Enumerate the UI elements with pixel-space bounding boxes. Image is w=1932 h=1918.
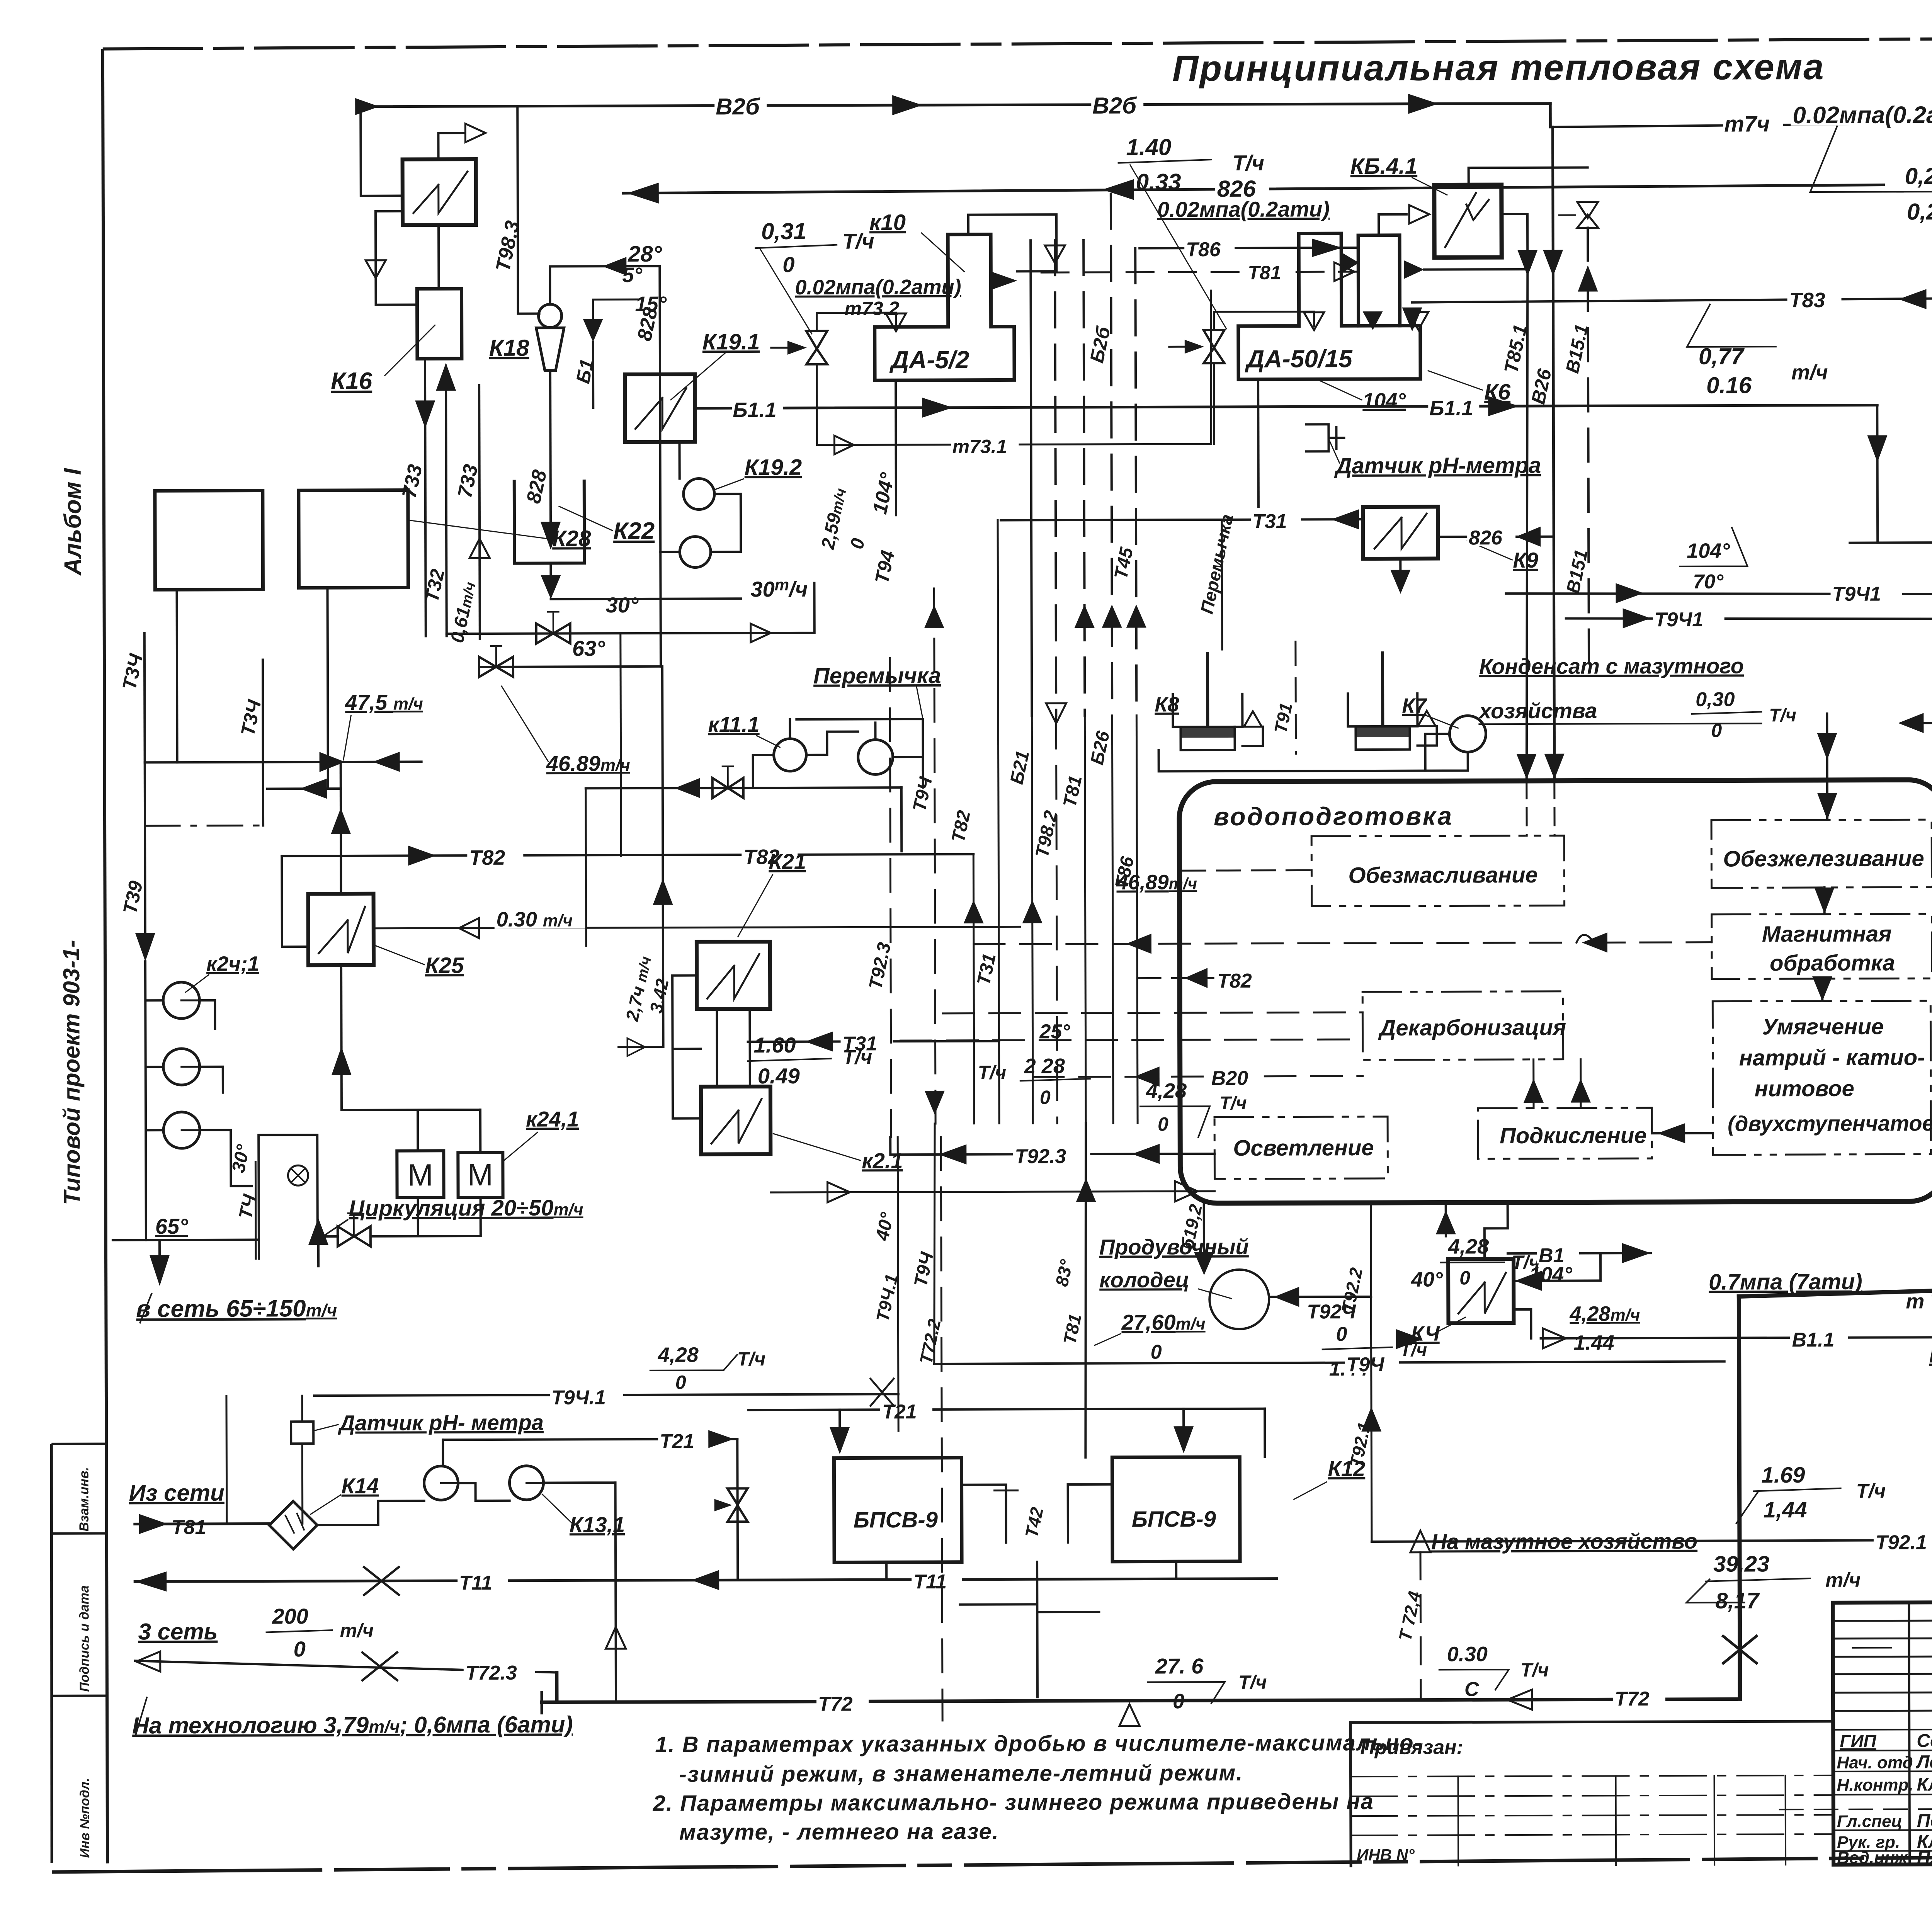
leader K24.1 bbox=[503, 1132, 537, 1161]
arrow up T94 bbox=[924, 605, 944, 628]
svg-text:к24,1: к24,1 bbox=[526, 1107, 579, 1131]
bundle v T92.3 bbox=[890, 658, 891, 1137]
svg-text:К19.1: К19.1 bbox=[702, 329, 760, 354]
svg-text:Т/ч: Т/ч bbox=[978, 1061, 1007, 1083]
arrow left 47.5 b bbox=[373, 752, 400, 772]
open arrow up on 733 bbox=[469, 539, 490, 558]
svg-text:водоподготовка: водоподготовка bbox=[1214, 801, 1453, 831]
svg-text:Из сети: Из сети bbox=[129, 1480, 224, 1506]
svg-text:Обезмасливание: Обезмасливание bbox=[1348, 862, 1537, 888]
wires podkisl up to dekarb bbox=[1532, 1059, 1534, 1108]
tick end bbox=[540, 1692, 543, 1713]
wire 733 pair below tank: left down bbox=[425, 359, 426, 636]
svg-text:К19.2: К19.2 bbox=[745, 455, 802, 480]
wire short merge second bbox=[267, 787, 341, 790]
leader K13.1 bbox=[543, 1494, 573, 1524]
svg-text:27. 6: 27. 6 bbox=[1155, 1654, 1204, 1678]
arrow up cirk bbox=[308, 1218, 328, 1245]
open arrow on upper valve line bbox=[751, 624, 771, 642]
arrow into B1.1 from left low bbox=[1396, 1329, 1423, 1349]
arrow up B21 bbox=[1022, 900, 1043, 923]
wire T86 bbox=[1139, 248, 1358, 248]
svg-text:(двухступенчатое): (двухступенчатое) bbox=[1728, 1111, 1932, 1136]
svg-text:63°: 63° bbox=[572, 636, 605, 660]
svg-text:В2б: В2б bbox=[1092, 93, 1137, 119]
bundle v T31 bbox=[998, 520, 999, 1124]
svg-text:Т/ч: Т/ч bbox=[1219, 1093, 1247, 1114]
label B1.1 bbox=[732, 396, 783, 419]
title block outer bbox=[1833, 1600, 1932, 1865]
leader 0.31 to valve bbox=[760, 249, 812, 334]
arrow left second bbox=[300, 779, 327, 799]
leader KB.4.1 bbox=[1412, 177, 1447, 195]
wire up into tank bbox=[446, 366, 447, 636]
circle-x vent bbox=[288, 1165, 308, 1185]
svg-text:К7: К7 bbox=[1402, 694, 1427, 718]
arrow T31 into K9 bbox=[1331, 509, 1359, 529]
wire B1.1 from K4 right bbox=[1541, 1337, 1932, 1338]
svg-text:Т82: Т82 bbox=[1217, 970, 1252, 992]
svg-text:На мазутное хозяйство: На мазутное хозяйство bbox=[1431, 1529, 1697, 1554]
left strip column line bbox=[51, 1444, 53, 1863]
svg-text:Декарбонизация: Декарбонизация bbox=[1378, 1015, 1566, 1041]
leader K25 bbox=[375, 945, 424, 964]
tank BPSV-9 right bbox=[1112, 1457, 1240, 1562]
arrow down at 30 line bbox=[541, 575, 561, 599]
arrow T86 bbox=[1312, 238, 1342, 257]
svg-text:Нач. отд: Нач. отд bbox=[1837, 1753, 1913, 1772]
wire tank2 down bbox=[327, 588, 328, 789]
svg-text:натрий - катио-: натрий - катио- bbox=[1739, 1045, 1925, 1070]
box Dekarbonizaciya bbox=[1362, 991, 1563, 1060]
sig table verticals bbox=[1909, 1602, 1932, 1864]
wire T83 bbox=[1412, 298, 1932, 302]
pump K13.1 a bbox=[424, 1466, 458, 1500]
svg-text:Вед.инж: Вед.инж bbox=[1837, 1848, 1908, 1867]
arrow magnit to umyagch bbox=[1821, 979, 1823, 1001]
vertical valve bowtie bbox=[728, 1488, 748, 1522]
central bundle vertical 1 bbox=[1031, 240, 1032, 716]
label T72 bottom a bbox=[816, 1690, 869, 1712]
wire feed K21 vertical bbox=[662, 667, 663, 1047]
wire 826 from K9 bbox=[1438, 536, 1554, 538]
wire B26 vertical bbox=[1553, 127, 1554, 781]
leader 1.40 to valve50 bbox=[1130, 165, 1226, 329]
pump circle c2 bbox=[163, 1049, 200, 1085]
svg-text:Т/ч: Т/ч bbox=[1238, 1671, 1267, 1693]
svg-text:4,28т/ч: 4,28т/ч bbox=[1569, 1302, 1640, 1325]
wire T34 left col bbox=[145, 633, 145, 933]
heat exchanger K16 square bbox=[403, 159, 476, 225]
wire K9 down arrow bbox=[1399, 559, 1401, 570]
loop rect left of valve bbox=[259, 1135, 338, 1259]
label T82 bbox=[467, 844, 523, 866]
svg-text:0,30: 0,30 bbox=[1696, 689, 1735, 711]
wire T31 line bbox=[1001, 519, 1363, 520]
arrow on B2b mid bbox=[892, 95, 922, 115]
wire valve line corner down bbox=[900, 787, 903, 851]
leader K10 bbox=[922, 233, 964, 272]
svg-text:Умягчение: Умягчение bbox=[1762, 1014, 1884, 1040]
arrow up B26 bbox=[1102, 605, 1122, 628]
label T74 bbox=[1723, 110, 1783, 133]
open arrow T81 bbox=[1334, 262, 1354, 281]
svg-text:К22: К22 bbox=[613, 518, 655, 544]
svg-text:4,28: 4,28 bbox=[658, 1343, 699, 1367]
label T92.1 bbox=[1874, 1529, 1932, 1551]
svg-text:0: 0 bbox=[675, 1372, 686, 1393]
valve bowtie upper bbox=[536, 623, 570, 643]
arrow down T85.1 bbox=[1517, 250, 1537, 276]
arrow umyagch to podkisl bbox=[1652, 1132, 1713, 1134]
leader 39.23 bbox=[1686, 1579, 1744, 1602]
heat exchanger K4 bbox=[1448, 1259, 1514, 1323]
wire T941 line upper bbox=[1506, 591, 1932, 597]
svg-text:т73.2: т73.2 bbox=[845, 298, 900, 319]
label T72 bottom b bbox=[1613, 1685, 1665, 1707]
svg-text:Т92.3: Т92.3 bbox=[1015, 1145, 1066, 1168]
label B1.1 right bbox=[1428, 394, 1479, 417]
wire B19.2 into well bbox=[1203, 1203, 1205, 1272]
wires pumps piping bbox=[443, 1439, 616, 1702]
arrow stub into valve bbox=[787, 341, 807, 355]
svg-text:К8: К8 bbox=[1155, 693, 1179, 716]
valve X on T11 bbox=[364, 1567, 399, 1595]
cross valve on T72v bbox=[1723, 1636, 1757, 1663]
svg-text:40°: 40° bbox=[1411, 1268, 1443, 1291]
wire 65 line bbox=[113, 1239, 259, 1241]
svg-text:Т83: Т83 bbox=[1789, 289, 1825, 312]
wire tower2 to KB41 bbox=[1379, 214, 1406, 235]
svg-text:В1.1: В1.1 bbox=[1792, 1329, 1835, 1351]
svg-text:Портной: Портной bbox=[1917, 1811, 1932, 1831]
wire K10 tower top loop bbox=[968, 214, 1056, 272]
svg-text:К6: К6 bbox=[1484, 379, 1511, 405]
svg-text:Лепендин: Лепендин bbox=[1915, 1752, 1932, 1773]
wire T81.1 line lower bbox=[1566, 616, 1932, 622]
arrow up on T92.2 vert bbox=[1361, 1407, 1381, 1432]
svg-text:Б1.1: Б1.1 bbox=[1429, 396, 1473, 420]
funnel arrows into DA-50 top bbox=[1304, 312, 1324, 330]
label T83 bbox=[1787, 286, 1841, 309]
svg-text:1. В параметрах указанных дро: 1. В параметрах указанных дробью в числи… bbox=[655, 1730, 1422, 1757]
leader sensor2 bbox=[315, 1425, 338, 1430]
box Osvetlenie bbox=[1214, 1117, 1388, 1179]
open arrow T72.3 bbox=[136, 1651, 160, 1671]
wire T81 line bbox=[135, 1522, 269, 1525]
arrow left 826 bbox=[627, 183, 659, 204]
label T92.3 bbox=[1013, 1143, 1090, 1165]
wire B1.1 long line bbox=[695, 405, 1877, 408]
wire peremychka jumper bbox=[796, 719, 923, 770]
svg-text:Б1.1: Б1.1 bbox=[733, 398, 776, 422]
arrow up feed K21 bbox=[653, 879, 673, 905]
dashed feed into obezmaslivanie left bbox=[1182, 869, 1311, 872]
arrow up T81 bbox=[1075, 605, 1095, 628]
arrow left valve line bbox=[675, 778, 700, 798]
label T81 bbox=[1246, 260, 1293, 281]
bundle v T94 bbox=[934, 588, 935, 1124]
wire osvetlenie feed bbox=[771, 1191, 1215, 1192]
svg-text:Т72: Т72 bbox=[818, 1693, 853, 1716]
svg-text:К28: К28 bbox=[552, 526, 591, 551]
central bundle vertical 3 bbox=[1083, 240, 1085, 716]
valve bowtie DA-50 feed bbox=[1204, 330, 1225, 363]
svg-text:БПСВ-9: БПСВ-9 bbox=[1132, 1507, 1216, 1532]
wire down from K22 to 30 bbox=[549, 563, 552, 575]
svg-text:т/ч: т/ч bbox=[340, 1620, 374, 1641]
svg-text:т/ч: т/ч bbox=[1791, 361, 1828, 384]
wire T81 dashed bbox=[1041, 272, 1357, 272]
svg-text:Т72.3: Т72.3 bbox=[466, 1662, 517, 1684]
svg-text:К16: К16 bbox=[331, 368, 372, 394]
t82 dashed into box left bbox=[1137, 977, 1213, 979]
wire T34 second col bbox=[263, 660, 263, 825]
svg-text:0.7мпа (7ати): 0.7мпа (7ати) bbox=[1709, 1269, 1862, 1295]
wires K11.1 piping bbox=[753, 719, 923, 788]
label T941 lower bbox=[1653, 606, 1725, 628]
open arrow left T72 mid bbox=[1507, 1690, 1532, 1710]
svg-text:0: 0 bbox=[1158, 1113, 1168, 1135]
wire T73.1 bbox=[816, 291, 1211, 445]
dashed line t82 with break bbox=[974, 942, 1712, 944]
wire T72.3 line bbox=[135, 1660, 557, 1674]
svg-text:0.16: 0.16 bbox=[1706, 372, 1752, 398]
deaerator DA-5/2 tank bbox=[874, 234, 1014, 380]
wire K16 top bend arrow bbox=[438, 133, 463, 159]
heat exchanger K9 bbox=[1363, 507, 1438, 559]
svg-text:Т9Ч1: Т9Ч1 bbox=[1832, 583, 1881, 605]
svg-text:0: 0 bbox=[1151, 1341, 1162, 1363]
svg-text:Т9Ч1: Т9Ч1 bbox=[1655, 609, 1704, 631]
arrow down small 15 bbox=[583, 319, 603, 342]
wires K19.2 piping bbox=[660, 442, 741, 552]
leader K22 bbox=[559, 506, 612, 531]
svg-text:В2б: В2б bbox=[716, 94, 760, 119]
arrow obezzh to magnit bbox=[1823, 888, 1826, 914]
tank K22 open top bbox=[514, 481, 585, 563]
svg-text:826: 826 bbox=[1469, 527, 1503, 549]
svg-text:Т11: Т11 bbox=[459, 1572, 492, 1594]
leader K9 bbox=[1467, 541, 1512, 560]
svg-text:Т82: Т82 bbox=[469, 846, 505, 869]
wire left loop to K16 bbox=[361, 107, 403, 196]
tank K16 lower rect bbox=[417, 289, 461, 359]
open arrow top v2 bbox=[1045, 245, 1065, 263]
wire T92.2 vertical bbox=[1371, 1254, 1372, 1542]
wire T92.4 into well bbox=[1269, 1296, 1371, 1298]
box Podkislenie bbox=[1478, 1108, 1652, 1159]
label T31 bbox=[1251, 508, 1301, 529]
wire upper valve line bbox=[446, 583, 814, 634]
svg-text:200: 200 bbox=[272, 1604, 308, 1628]
arrow left at 28 bbox=[602, 257, 626, 275]
svg-text:0,31: 0,31 bbox=[761, 218, 806, 244]
bundle v T98.2 bbox=[1056, 716, 1057, 1123]
svg-text:39.23: 39.23 bbox=[1713, 1551, 1769, 1576]
wire mazut vertical dashed bbox=[1420, 1552, 1421, 1700]
heat exchanger K21 lower bbox=[701, 1087, 770, 1154]
label T73.1 bbox=[951, 433, 1019, 454]
svg-text:Продувочный: Продувочный bbox=[1099, 1234, 1249, 1259]
sensor pH box bbox=[1306, 424, 1344, 451]
wire drain bpsv vertical bbox=[1036, 1612, 1039, 1697]
svg-text:Датчик рН-метра: Датчик рН-метра bbox=[1334, 453, 1541, 478]
dashed feeds inside box to obezmaslivanie top bbox=[1526, 781, 1527, 836]
svg-text:ИНВ N°: ИНВ N° bbox=[1357, 1846, 1415, 1864]
svg-text:0.02мпа(0.2ати): 0.02мпа(0.2ати) bbox=[1157, 197, 1330, 221]
sampler K7 cup right bbox=[1348, 694, 1417, 750]
box Obezzhelezivanie bbox=[1711, 820, 1932, 888]
svg-text:Т/ч: Т/ч bbox=[737, 1348, 766, 1370]
svg-text:КБ.4.1: КБ.4.1 bbox=[1350, 154, 1418, 179]
wire sensor2 drop bbox=[226, 1396, 303, 1524]
svg-text:30°: 30° bbox=[606, 593, 639, 617]
wire T85.1 vertical bbox=[1525, 269, 1529, 781]
arrows down into BPSV bbox=[830, 1427, 850, 1454]
wire BPSV bottoms to T11 bbox=[886, 1561, 1176, 1612]
leader peremychka bbox=[917, 687, 923, 719]
svg-text:Инв №подл.: Инв №подл. bbox=[78, 1778, 93, 1858]
pump K13.1 b bbox=[509, 1466, 543, 1500]
svg-text:70°: 70° bbox=[1693, 571, 1724, 593]
bundle v B26 low bbox=[1112, 716, 1113, 1123]
arrow on B2b bbox=[355, 98, 379, 115]
wire T83 into tank arrow bbox=[1402, 308, 1422, 332]
svg-text:К25: К25 bbox=[425, 953, 464, 978]
pump K11.1 circle b bbox=[858, 740, 893, 774]
leader 46.89 left bbox=[502, 686, 548, 762]
leader 104 bbox=[1320, 381, 1362, 400]
svg-text:Взам.инв.: Взам.инв. bbox=[77, 1467, 91, 1532]
svg-text:1.40: 1.40 bbox=[1126, 134, 1171, 160]
svg-text:колодец: колодец bbox=[1099, 1267, 1189, 1292]
filter K14 diamond bbox=[269, 1501, 317, 1549]
wire T98.3 vertical bbox=[517, 106, 539, 314]
frame left border bbox=[103, 49, 107, 1864]
open arrow up mazut bbox=[1410, 1531, 1430, 1552]
open arrow right small bbox=[465, 124, 485, 142]
wire T94 line low bbox=[934, 1362, 1725, 1364]
wire K14 to pumps bbox=[317, 1483, 510, 1525]
svg-text:0.33: 0.33 bbox=[1136, 169, 1181, 195]
leader fraction 0.23/0.20 bbox=[1810, 126, 1903, 192]
svg-text:0.49: 0.49 bbox=[758, 1064, 800, 1088]
leader K12 bbox=[1294, 1482, 1327, 1499]
arrow on dashed t82 bbox=[1582, 932, 1607, 952]
wire T94.1 vertical long bbox=[898, 1137, 898, 1431]
tick T42 bbox=[995, 1490, 1018, 1491]
svg-text:М: М bbox=[467, 1158, 493, 1192]
open arrow down T98.2 bbox=[1046, 703, 1066, 723]
svg-text:В20: В20 bbox=[1211, 1067, 1248, 1090]
wire pump down bbox=[550, 371, 551, 522]
svg-text:к2.1: к2.1 bbox=[862, 1148, 903, 1173]
tank BPSV-9 left bbox=[834, 1458, 962, 1563]
svg-text:т73.1: т73.1 bbox=[952, 435, 1007, 457]
valve bowtie DA-5 feed bbox=[806, 331, 827, 364]
wire peremychka2 vertical bbox=[1221, 520, 1223, 650]
svg-text:Т31: Т31 bbox=[1252, 510, 1287, 533]
wire corner down to T74 bbox=[1549, 104, 1552, 127]
dekarb dashed feeds left bbox=[943, 1012, 1362, 1013]
arrow up on merge vert bbox=[331, 808, 351, 834]
svg-text:104°: 104° bbox=[1362, 389, 1406, 412]
wire 0.30 line bbox=[374, 927, 1020, 928]
wire K16 left step down bbox=[376, 211, 417, 304]
svg-text:Циркуляция 20÷50т/ч: Циркуляция 20÷50т/ч bbox=[349, 1195, 583, 1221]
svg-text:С: С bbox=[1464, 1678, 1480, 1700]
svg-text:к10: к10 bbox=[869, 210, 906, 235]
wire T81 down to T94 bbox=[1085, 1123, 1087, 1457]
svg-text:Т72: Т72 bbox=[1615, 1688, 1650, 1710]
label T94.1 bbox=[550, 1384, 623, 1405]
arrow into tower2 right bbox=[1404, 260, 1424, 279]
leader 47.5 bbox=[343, 716, 351, 760]
svg-text:Т81: Т81 bbox=[1248, 262, 1281, 284]
svg-text:Альбом I: Альбом I bbox=[60, 468, 87, 576]
svg-text:К12: К12 bbox=[1328, 1456, 1365, 1481]
arrow T83 left-pointing bbox=[1898, 289, 1926, 309]
label T21 bbox=[658, 1428, 708, 1449]
svg-text:Т/ч: Т/ч bbox=[1233, 151, 1265, 175]
leader sensor bbox=[1329, 440, 1339, 463]
box Obezmaslivanie bbox=[1311, 836, 1564, 906]
svg-text:1,44: 1,44 bbox=[1764, 1497, 1807, 1522]
wire 30deg collect bbox=[551, 599, 741, 599]
wire 47.5 merge line bbox=[145, 762, 422, 762]
pump K18 funnel bbox=[536, 328, 564, 370]
svg-text:0: 0 bbox=[1040, 1087, 1051, 1108]
svg-text:Типовой проект 903-1-: Типовой проект 903-1- bbox=[58, 940, 85, 1205]
svg-text:Т9Ч: Т9Ч bbox=[1347, 1353, 1385, 1376]
wire B2b main steam line bbox=[361, 104, 1550, 107]
svg-text:0.30 т/ч: 0.30 т/ч bbox=[497, 908, 573, 931]
sampler K8 cup left bbox=[1173, 694, 1242, 750]
bundle v B21 bbox=[1032, 716, 1033, 1123]
svg-text:М: М bbox=[407, 1158, 433, 1192]
svg-text:0: 0 bbox=[1336, 1323, 1347, 1345]
wire T4 vertical bbox=[255, 1162, 257, 1259]
wire B20 line bbox=[1033, 1076, 1363, 1077]
svg-text:ДА-50/15: ДА-50/15 bbox=[1245, 345, 1353, 373]
open arrow into KB41 left bbox=[1409, 205, 1429, 224]
wire 826 second line bbox=[623, 185, 1884, 194]
label T94 low bbox=[1345, 1351, 1399, 1373]
arrow into tower right bbox=[991, 271, 1017, 290]
wire K25 down bbox=[340, 965, 343, 1110]
svg-text:Т81: Т81 bbox=[172, 1516, 206, 1539]
svg-text:Т/ч: Т/ч bbox=[1856, 1480, 1886, 1503]
pump K19.2 lower circle bbox=[680, 536, 711, 567]
arrow left 826k9 bbox=[1516, 527, 1541, 547]
wire B1.1 corner down right bbox=[1876, 405, 1879, 543]
fraction 4.28 into box bottom bbox=[1445, 1202, 1447, 1236]
leader K19.2 bbox=[716, 479, 744, 489]
dash in a cell bbox=[1853, 1647, 1891, 1648]
svg-text:1.69: 1.69 bbox=[1761, 1462, 1805, 1488]
svg-text:4,28: 4,28 bbox=[1448, 1235, 1489, 1258]
arrow up T82 bbox=[964, 900, 984, 923]
arrow T81 in bbox=[139, 1514, 168, 1534]
valve bowtie B15.1 top bbox=[1577, 202, 1598, 228]
heat exchanger KB.4.1 square bbox=[1434, 185, 1502, 257]
svg-text:обработка: обработка bbox=[1770, 950, 1895, 976]
wire T91 vertical dashed bbox=[1294, 642, 1297, 754]
svg-text:мазуте, - летнего на газе.: мазуте, - летнего на газе. bbox=[679, 1819, 999, 1845]
label T11 b bbox=[912, 1568, 962, 1590]
tank K28 right bbox=[299, 490, 408, 588]
